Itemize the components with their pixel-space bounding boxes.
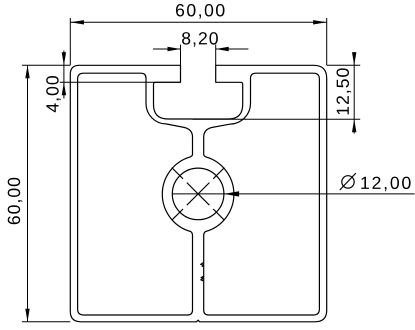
dimension text 4,00 <box>46 76 61 112</box>
diameter symbol and text <box>340 173 356 190</box>
dimension text 60,00 (top) <box>176 4 225 19</box>
top 60,00 extension lines <box>69 18 71 65</box>
12,50 extension lines <box>327 64 361 66</box>
4,00 extension line <box>60 81 181 83</box>
centre X mark <box>187 183 210 206</box>
profile outer contour with T-slot cavity and bottom notch <box>70 65 326 322</box>
diameter leader line <box>172 193 414 195</box>
top 60,00 dimension line <box>70 21 326 23</box>
dimension text 8,20 <box>182 32 218 47</box>
8,20 dimension lines <box>153 48 181 50</box>
central screw hole <box>172 168 224 220</box>
8,20 extension lines <box>180 45 182 66</box>
4,00 dimension line <box>63 51 65 99</box>
dimension text 12,50 <box>337 68 352 114</box>
dimension text 60,00 (left) <box>8 178 23 225</box>
left 60,00 dimension line <box>27 65 29 322</box>
arrows: top 60,00 <box>70 20 84 24</box>
arrows: 12,50 (outside) <box>352 52 356 65</box>
arrow: diameter leader <box>224 191 239 196</box>
12,50 dimension line <box>353 52 355 134</box>
arrows: left 60,00 <box>25 65 29 78</box>
left 60,00 extension lines <box>22 64 70 66</box>
dimension text 12,00 <box>361 177 410 192</box>
right chamber inner contour <box>204 73 320 315</box>
arrows: 8,20 <box>168 47 181 51</box>
arrows: 4,00 (outside) <box>62 52 66 65</box>
left chamber inner contour <box>78 73 193 315</box>
thread tick marks at 45 deg <box>213 168 224 179</box>
web nubs <box>201 262 204 267</box>
